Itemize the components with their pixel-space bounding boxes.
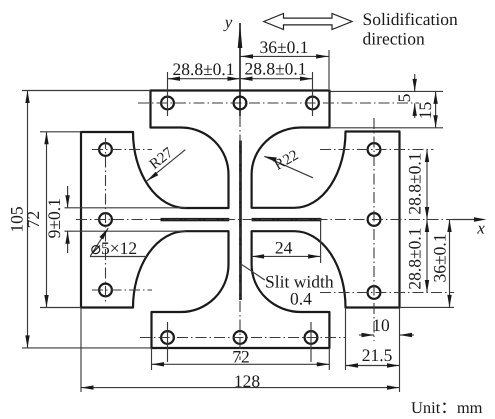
svg-text:15: 15 xyxy=(415,102,435,120)
svg-text:x: x xyxy=(476,219,485,238)
svg-text:5: 5 xyxy=(394,93,414,102)
dimension: 36+-0.1 top xyxy=(168,56,329,78)
label slit width xyxy=(241,264,265,280)
holes xyxy=(99,97,380,344)
slits xyxy=(161,218,230,221)
svg-text:10: 10 xyxy=(372,315,390,335)
svg-text:28.8±0.1: 28.8±0.1 xyxy=(405,152,425,214)
svg-text:y: y xyxy=(223,13,233,32)
label R27 xyxy=(147,150,185,181)
label diameter 5x12 xyxy=(90,228,108,257)
solidification arrow xyxy=(264,14,352,30)
specimen outline xyxy=(81,91,400,349)
svg-text:direction: direction xyxy=(363,28,425,48)
svg-text:28.8±0.1: 28.8±0.1 xyxy=(244,59,306,79)
dimension: 5 and 15 top right xyxy=(415,74,436,128)
dimension: 10, 21.5, 72, 128 bottom xyxy=(81,335,414,388)
svg-text:72: 72 xyxy=(232,347,250,367)
svg-text:24: 24 xyxy=(275,238,293,258)
svg-text:9±0.1: 9±0.1 xyxy=(44,198,64,238)
svg-text:Solidification: Solidification xyxy=(363,9,459,29)
svg-text:36±0.1: 36±0.1 xyxy=(260,37,309,57)
svg-text:⌀5×12: ⌀5×12 xyxy=(91,238,138,258)
svg-text:0.4: 0.4 xyxy=(290,289,312,309)
svg-text:28.8±0.1: 28.8±0.1 xyxy=(172,59,234,79)
center lines xyxy=(76,103,474,360)
axes xyxy=(239,23,241,116)
svg-text:72: 72 xyxy=(23,211,43,229)
svg-text:36±0.1: 36±0.1 xyxy=(430,234,450,283)
svg-text:Unit：mm: Unit：mm xyxy=(411,398,483,417)
dimension: 24 xyxy=(252,255,321,257)
svg-text:128: 128 xyxy=(234,371,261,391)
svg-text:21.5: 21.5 xyxy=(362,345,393,365)
dimension: 105, 72, 9+-0.1 left xyxy=(28,91,68,348)
dimension: right side 28.8/28.8/36 xyxy=(427,150,450,308)
label R22 xyxy=(264,156,313,178)
svg-text:28.8±0.1: 28.8±0.1 xyxy=(405,227,425,289)
extension lines xyxy=(22,50,454,392)
